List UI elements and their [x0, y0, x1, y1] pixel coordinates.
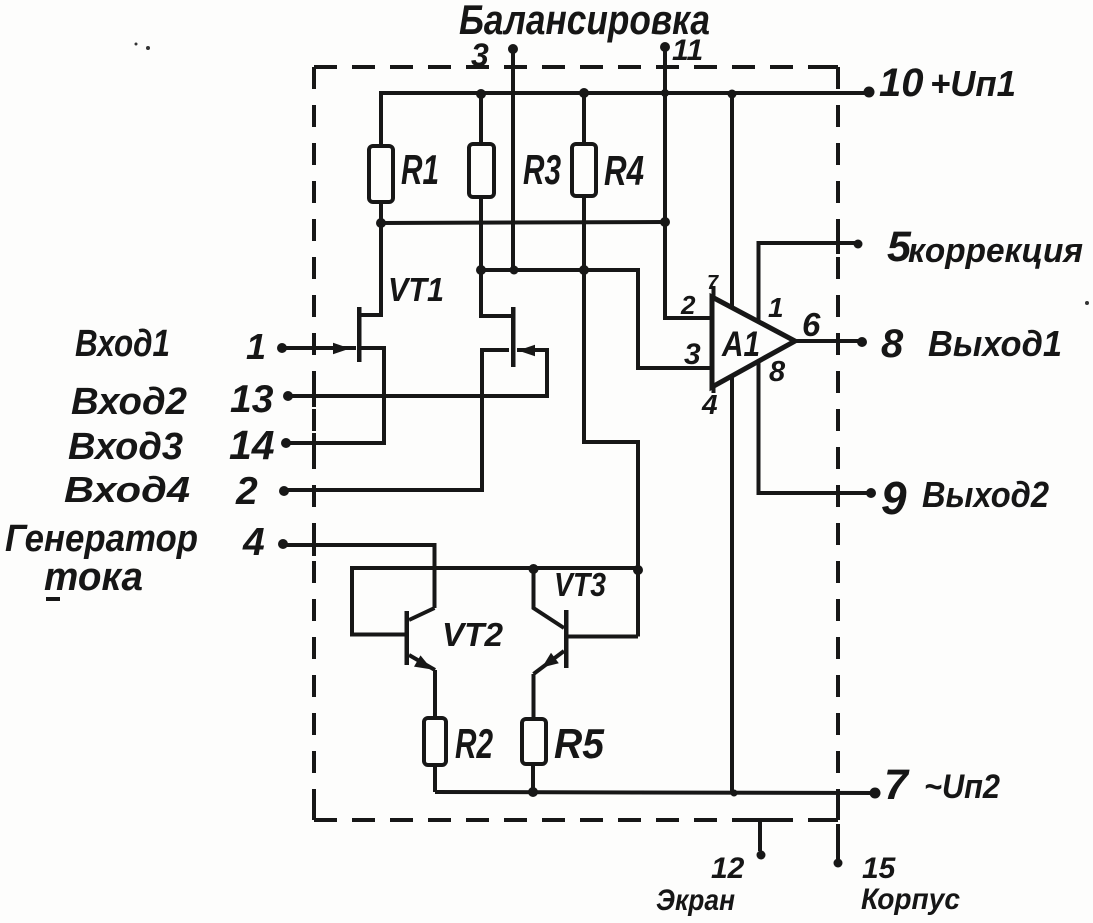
- node op-amp supply on bus: [728, 90, 737, 99]
- svg-text:11: 11: [672, 34, 703, 67]
- wire pin 11 vertical: [663, 47, 667, 222]
- wire R4 top lead: [582, 93, 586, 144]
- IC package dashed outline: [314, 67, 838, 820]
- svg-text:8: 8: [881, 322, 904, 366]
- pin 1 terminal: [246, 326, 287, 367]
- transistor VT3: [534, 566, 639, 674]
- pin 5 terminal: [854, 223, 1084, 271]
- svg-text:15: 15: [862, 852, 897, 885]
- svg-text:R4: R4: [604, 147, 644, 194]
- svg-text:12: 12: [711, 852, 745, 885]
- wire R5 bottom lead: [531, 764, 535, 792]
- node VT3 base / R4 path junction: [633, 565, 643, 575]
- pin 11 terminal: [660, 34, 703, 67]
- svg-text:1: 1: [246, 326, 266, 367]
- node VT3 collector junction: [529, 564, 539, 574]
- svg-text:R3: R3: [523, 146, 561, 193]
- svg-text:4: 4: [701, 389, 718, 420]
- pin 8 terminal: [857, 322, 1062, 366]
- node R5 bottom: [528, 787, 538, 797]
- svg-text:Экран: Экран: [656, 884, 735, 917]
- svg-text:8: 8: [769, 356, 786, 388]
- node R3-top on bus: [476, 89, 486, 99]
- pin 13 terminal: [230, 378, 293, 421]
- resistor R5: [522, 719, 605, 767]
- svg-text:коррекция: коррекция: [908, 232, 1083, 270]
- pin 2 terminal: [235, 470, 289, 513]
- resistor R2: [424, 718, 493, 767]
- wire R4 bottom lead: [582, 196, 586, 270]
- svg-text:6: 6: [802, 306, 821, 343]
- transistor VT2: [405, 608, 504, 670]
- wire pin 3 vertical: [511, 49, 515, 270]
- wire R2 bottom lead: [433, 765, 437, 792]
- node R3 drain junction: [476, 265, 486, 275]
- svg-text:7: 7: [707, 272, 719, 294]
- svg-text:Вход2: Вход2: [71, 381, 187, 423]
- svg-text:Выход1: Выход1: [928, 323, 1062, 364]
- pin 10 terminal: [864, 61, 1017, 105]
- pin 15 terminal (case): [834, 824, 961, 916]
- wire pin13 to VT1b gate: [288, 350, 547, 396]
- wire pin2 to VT1b source: [284, 350, 509, 490]
- svg-text:+Uп1: +Uп1: [930, 63, 1016, 104]
- svg-text:9: 9: [881, 472, 907, 524]
- wire pin4 to VT2 collector: [283, 545, 435, 608]
- wire VT3 emitter to R5: [532, 674, 536, 719]
- svg-text:4: 4: [242, 521, 265, 564]
- wire left-drain bus (R1 bottom rail): [378, 222, 665, 223]
- svg-text:Вход4: Вход4: [64, 469, 190, 510]
- svg-text:VT3: VT3: [554, 566, 606, 603]
- wire -Un2 bus: [435, 792, 875, 793]
- svg-text:13: 13: [230, 378, 274, 421]
- node op-amp V- on bus: [731, 790, 738, 797]
- wire +Un1 bus with R1 top lead: [381, 93, 869, 146]
- pin 4 terminal: [242, 521, 288, 564]
- wire R3 top lead: [479, 93, 483, 144]
- svg-text:тока: тока: [44, 555, 143, 599]
- transistor VT1b channel bar: [511, 307, 516, 367]
- wire R1 bottom lead / VT1a drain: [359, 202, 381, 315]
- svg-text:3: 3: [684, 338, 701, 371]
- op-amp pin 4 stub: [701, 386, 718, 420]
- svg-text:R2: R2: [455, 720, 493, 767]
- node R4 bottom tap: [579, 265, 589, 275]
- svg-text:2: 2: [680, 290, 696, 320]
- node pin3 tap: [510, 266, 519, 275]
- node pin11 bus crossing: [661, 89, 669, 97]
- svg-text:Вход1: Вход1: [75, 323, 170, 365]
- svg-text:~Uп2: ~Uп2: [924, 768, 1000, 806]
- resistor R1: [369, 146, 439, 202]
- svg-text:3: 3: [471, 37, 489, 73]
- wire R3 bottom lead / VT1b drain: [481, 197, 511, 316]
- wire correction tap to pin 5: [759, 243, 859, 321]
- svg-text:Генератор: Генератор: [5, 518, 198, 560]
- resistor R4: [572, 144, 644, 196]
- wire R4 to VT3 base path: [584, 270, 638, 570]
- wire VT1a source to pin 14: [287, 348, 384, 443]
- svg-text:Выход2: Выход2: [922, 474, 1049, 515]
- svg-text:R5: R5: [554, 720, 605, 767]
- wire current mirror base rail: [352, 568, 638, 635]
- wire pin1 to VT1a gate: [282, 346, 356, 350]
- op-amp A1: [712, 294, 795, 390]
- svg-text:14: 14: [229, 422, 275, 468]
- VT1b gate arrow: [518, 345, 535, 356]
- wire drain node line to op-amp input 3: [481, 270, 712, 368]
- node bus224 right end: [660, 217, 670, 227]
- svg-text:Вход3: Вход3: [68, 426, 183, 468]
- svg-text:2: 2: [235, 470, 258, 513]
- wire op-amp input 2 from bus224: [665, 222, 712, 318]
- pin 7 terminal: [870, 761, 1001, 809]
- svg-text:VT2: VT2: [442, 616, 504, 653]
- pin 3 terminal: [471, 37, 518, 73]
- svg-text:R1: R1: [401, 146, 439, 193]
- svg-text:1: 1: [768, 292, 784, 323]
- svg-text:7: 7: [884, 761, 910, 809]
- node R1 bottom: [376, 218, 386, 228]
- pin 12 terminal (screen): [656, 818, 774, 917]
- svg-text:A1: A1: [721, 325, 760, 364]
- wire output 1: [795, 339, 862, 343]
- transistor VT1a channel bar: [357, 307, 362, 362]
- pin 9 terminal: [866, 472, 1049, 524]
- wire op-amp V- supply: [730, 377, 734, 793]
- node R4-top on bus: [579, 88, 589, 98]
- svg-text:10: 10: [879, 61, 924, 105]
- wire VT2 emitter to R2: [433, 670, 437, 718]
- pin 14 terminal: [229, 422, 291, 468]
- svg-text:Корпус: Корпус: [861, 883, 960, 916]
- wire output 2 tap to pin 9: [759, 361, 872, 493]
- resistor R3: [469, 144, 561, 197]
- svg-text:VT1: VT1: [388, 271, 444, 308]
- VT1a gate arrow: [333, 343, 350, 354]
- op-amp pin 7 stub: [707, 272, 719, 298]
- label Генератор тока: [5, 518, 198, 599]
- wire op-amp V+ supply: [730, 94, 734, 307]
